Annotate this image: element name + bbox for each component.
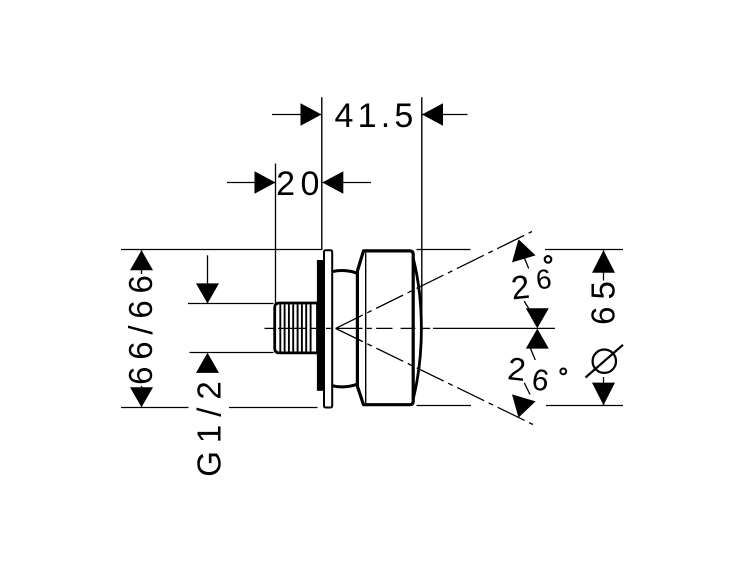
dimension 41.5 right tail [423, 114, 468, 116]
dimension line thread upper tail [207, 255, 209, 303]
extension line top right segment 2 [545, 249, 623, 251]
extension line thread bottom [190, 352, 274, 354]
arrow 26 deg upper outer [512, 239, 536, 262]
arrow angle baseline lower [526, 329, 549, 349]
lower angle leader stub below 2 [524, 383, 530, 395]
main body [357, 251, 413, 405]
arrow thread bottom [196, 353, 219, 373]
label 26 deg upper degree circle [545, 256, 552, 263]
gasket bar [317, 260, 325, 391]
upper spray cone line [336, 232, 532, 329]
svg-text:20: 20 [276, 165, 325, 203]
label 66/66 [122, 268, 159, 386]
lower spray cone line [336, 329, 533, 425]
extension line top right segment 1 [417, 249, 471, 251]
arrow 20 left [255, 171, 276, 194]
svg-text:G1/2: G1/2 [191, 373, 228, 477]
svg-text:65: 65 [585, 274, 622, 325]
label diameter 65 [589, 281, 618, 378]
label G1/2 [191, 373, 228, 477]
centerline dashes [265, 327, 431, 329]
svg-text:2: 2 [506, 350, 527, 388]
dimension 20 left tail [227, 182, 275, 184]
lower angle leader stub above 6 [531, 349, 536, 361]
thread hatch lines [280, 304, 310, 351]
arrow diameter bottom [592, 383, 615, 406]
extension line bottom left segment 1 [121, 407, 189, 409]
dimension line diameter 65 [603, 250, 605, 405]
arrow angle baseline upper [526, 308, 549, 328]
arrow 41.5 left [301, 103, 322, 126]
body inner contour line [365, 253, 367, 403]
centerline solid angle baseline [433, 327, 555, 329]
dimension 41.5 left tail [272, 114, 321, 116]
extension line bottom right segment 1 [417, 405, 472, 407]
spray face arc [413, 259, 421, 399]
dimension line 66/66 [141, 250, 143, 407]
arrow 41.5 right [422, 103, 443, 126]
arrow 20 right [322, 171, 343, 194]
svg-text:2: 2 [509, 268, 531, 307]
extension line 20 left [275, 164, 277, 303]
arrow thread top [196, 283, 219, 303]
arrow diameter top [592, 250, 615, 273]
extension line bottom left segment 2 [229, 407, 318, 409]
dimension 20 right tail [323, 182, 371, 184]
extension line 41.5 left [321, 97, 323, 250]
extension line thread top [188, 303, 274, 305]
upper angle leader stub below 2 [524, 301, 537, 321]
extension line 41.5 right [421, 97, 423, 332]
extension line bottom right segment 2 [546, 405, 623, 407]
thread G1/2 body [275, 303, 318, 353]
escutcheon plate [324, 250, 332, 407]
svg-text:41.5: 41.5 [335, 97, 418, 135]
arrow 26 deg lower outer [512, 394, 536, 417]
collar top curve [333, 271, 357, 274]
svg-text:66/66: 66/66 [122, 268, 159, 385]
arrow 66/66 top [130, 250, 153, 270]
extension line top left (plate top) [121, 249, 323, 251]
label 26 deg lower degree circle [560, 369, 566, 375]
collar bottom curve [333, 384, 357, 387]
arrow 66/66 bottom [130, 387, 153, 407]
upper angle leader stub near outer arrow [523, 255, 529, 269]
